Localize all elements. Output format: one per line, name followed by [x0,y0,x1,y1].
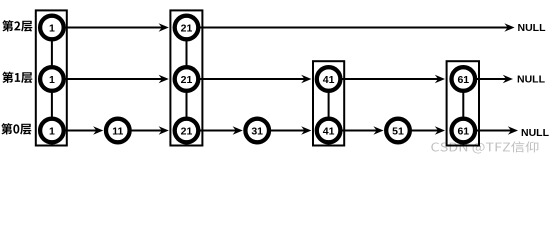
arrow level1: node61 -> NULL [472,75,513,83]
svg-text:21: 21 [181,125,193,137]
arrow level0: node61 -> NULL [472,126,518,134]
node circle 41 at y=130.5 [317,119,341,143]
arrow level0: node11 -> node21 [127,126,169,134]
svg-text:21: 21 [181,22,193,34]
arrow level0: node1 -> node11 [61,126,103,134]
node circle 61 at y=130.5 [452,119,476,143]
svg-text:1: 1 [49,74,55,86]
arrow level2: node1 -> node21 [61,23,169,31]
svg-text:1: 1 [49,22,55,34]
node circle 1 at y=79.0 [40,67,64,91]
node circle 31 (level 0) [245,119,269,143]
svg-text:1: 1 [49,125,55,137]
node circle 21 at y=79.0 [175,67,199,91]
svg-text:61: 61 [457,125,469,137]
arrow level1: node41 -> node61 [338,75,445,83]
row label 第1层 (level 1) [2,72,32,84]
svg-text:NULL: NULL [517,74,546,86]
vertical connector in column 1 [51,28,53,131]
row label 第2层 (level 2) [2,20,32,32]
column box for node 1 [36,10,67,145]
column box for node 61 [447,61,479,145]
svg-text:NULL: NULL [521,127,550,139]
arrow level2: node21 -> NULL [196,23,515,31]
node circle 41 at y=79.0 [317,67,341,91]
vertical connector in column 61 [462,79,464,131]
node circle 21 at y=130.5 [175,119,199,143]
arrow level0: node31 -> node41 [266,126,311,134]
node circle 1 at y=27.5 [40,16,64,40]
node circle 61 at y=79.0 [452,67,476,91]
svg-text:41: 41 [323,74,335,86]
column box for node 21 [170,10,202,145]
vertical connector in column 21 [186,28,188,131]
svg-text:41: 41 [323,125,335,137]
node circle 51 (level 0) [386,119,410,143]
row label 第0层 (level 0) [1,123,31,135]
svg-text:31: 31 [251,125,263,137]
svg-text:51: 51 [392,125,404,137]
arrow level0: node21 -> node31 [196,126,243,134]
node circle 11 (level 0) [106,119,130,143]
arrow level0: node41 -> node51 [338,126,384,134]
svg-text:11: 11 [112,125,123,137]
arrow level1: node21 -> node41 [196,75,312,83]
svg-text:61: 61 [457,74,469,86]
node circle 1 at y=130.5 [40,119,64,143]
arrow level0: node51 -> node61 [407,126,445,134]
svg-text:21: 21 [181,74,193,86]
node circle 21 at y=27.5 [175,16,199,40]
svg-text:NULL: NULL [518,22,547,34]
column box for node 41 [313,61,344,145]
vertical connector in column 41 [328,79,330,131]
watermark CSDN @TFZ信仰 [431,141,538,153]
arrow level1: node1 -> node21 [61,75,169,83]
